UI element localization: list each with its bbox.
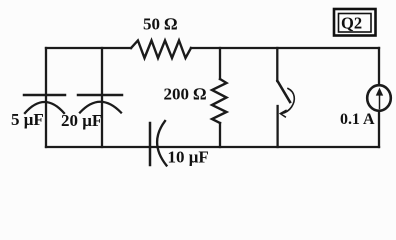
wire bottom [46, 146, 379, 148]
resistor R2 200-ohm bottom lead [219, 123, 221, 147]
svg-text:10 μF: 10 μF [168, 148, 209, 167]
svg-text:5 μF: 5 μF [11, 110, 44, 129]
resistor R2 200-ohm zigzag [212, 79, 227, 123]
switch S1 top lead [276, 48, 278, 81]
current source I1 arrow shaft [379, 91, 381, 109]
current source I1 arrowhead [376, 89, 382, 96]
wire left vertical [45, 48, 47, 147]
wire right vertical upper [378, 48, 380, 85]
svg-text:50 Ω: 50 Ω [143, 15, 177, 34]
label Q2 box inner [339, 14, 372, 33]
capacitor C2 20uF curved plate [80, 102, 121, 113]
wire top-left segment [46, 47, 131, 49]
switch S1 blade [278, 81, 291, 102]
capacitor C3 10uF curved plate [157, 121, 166, 166]
capacitor C1 5uF top plate [24, 94, 65, 97]
switch S1 bottom contact [276, 106, 278, 147]
resistor R2 200-ohm branch top lead [219, 48, 221, 79]
current source I1 circle [367, 85, 391, 111]
svg-text:Q2: Q2 [341, 14, 362, 33]
switch S1 arrow arc [282, 89, 294, 114]
wire right vertical lower [378, 111, 380, 147]
label Q2 box outer [334, 9, 376, 36]
resistor R1 50-ohm zigzag [131, 41, 191, 59]
svg-text:20 μF: 20 μF [61, 111, 102, 130]
wire top-right segment [191, 47, 379, 49]
switch S1 arrowhead [280, 110, 286, 117]
capacitor C3 10uF left plate [149, 123, 152, 165]
capacitor C1 5uF curved plate [25, 102, 64, 113]
wire second vertical [101, 48, 103, 147]
capacitor C2 20uF top plate [78, 94, 122, 97]
svg-text:0.1 A: 0.1 A [340, 111, 375, 128]
svg-text:200 Ω: 200 Ω [164, 85, 207, 104]
